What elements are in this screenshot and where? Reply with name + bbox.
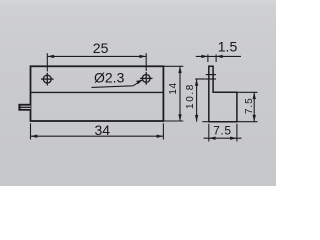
dim 34 extension lines (30, 123, 32, 139)
side view peg ribs (206, 74, 216, 76)
dim 34 line (31, 135, 164, 137)
arrow 14 bottom (178, 114, 181, 121)
dim 10.8 line (196, 79, 198, 122)
svg-text:34: 34 (95, 122, 111, 138)
arrow 14 top (178, 66, 181, 73)
arrow bottom 7.5 right (230, 137, 237, 140)
svg-text:14: 14 (168, 82, 179, 94)
left mounting hole crosshair (41, 73, 54, 86)
arrow 10.8 top (195, 79, 198, 86)
dim 10.8 extension line (195, 78, 206, 80)
dim right 7.5 line (253, 92, 255, 121)
dim 25 extension lines (46, 53, 48, 71)
dim 14 line (179, 66, 181, 121)
arrow right 7.5 bottom (253, 115, 256, 122)
dim right 7.5 extension lines (237, 91, 258, 93)
side view bottom-left extension for 10.8 (202, 121, 209, 123)
dim 14 extension lines (163, 65, 183, 67)
dim bottom 7.5 line (204, 137, 242, 139)
dim 1.5 extension ticks (207, 54, 209, 62)
front view divider line (31, 91, 164, 93)
arrow 25 left (47, 55, 54, 58)
dim 1.5 line (196, 55, 241, 57)
wire stub left (18, 104, 30, 111)
arrow right 7.5 top (253, 92, 256, 99)
leader line for hole diameter (92, 80, 143, 88)
svg-text:7.5: 7.5 (244, 97, 255, 114)
arrow 25 right (139, 55, 146, 58)
arrow 34 right (157, 135, 164, 138)
right mounting hole crosshair (140, 72, 153, 85)
arrow 1.5 right outside (216, 55, 223, 58)
svg-text:10.8: 10.8 (185, 83, 196, 109)
arrow 10.8 bottom (195, 115, 198, 122)
svg-text:Ø2.3: Ø2.3 (94, 69, 125, 85)
arrow bottom 7.5 left (209, 137, 216, 140)
arrow 34 left (31, 135, 38, 138)
svg-text:25: 25 (93, 40, 109, 56)
dim 25 line (47, 55, 146, 57)
svg-text:1.5: 1.5 (218, 38, 238, 54)
dim bottom 7.5 extension lines (208, 124, 210, 142)
side view outline (209, 66, 237, 121)
svg-text:7.5: 7.5 (213, 123, 231, 137)
arrow leader (136, 80, 143, 85)
front view body outline (31, 66, 164, 121)
arrow 1.5 left outside (201, 55, 208, 58)
